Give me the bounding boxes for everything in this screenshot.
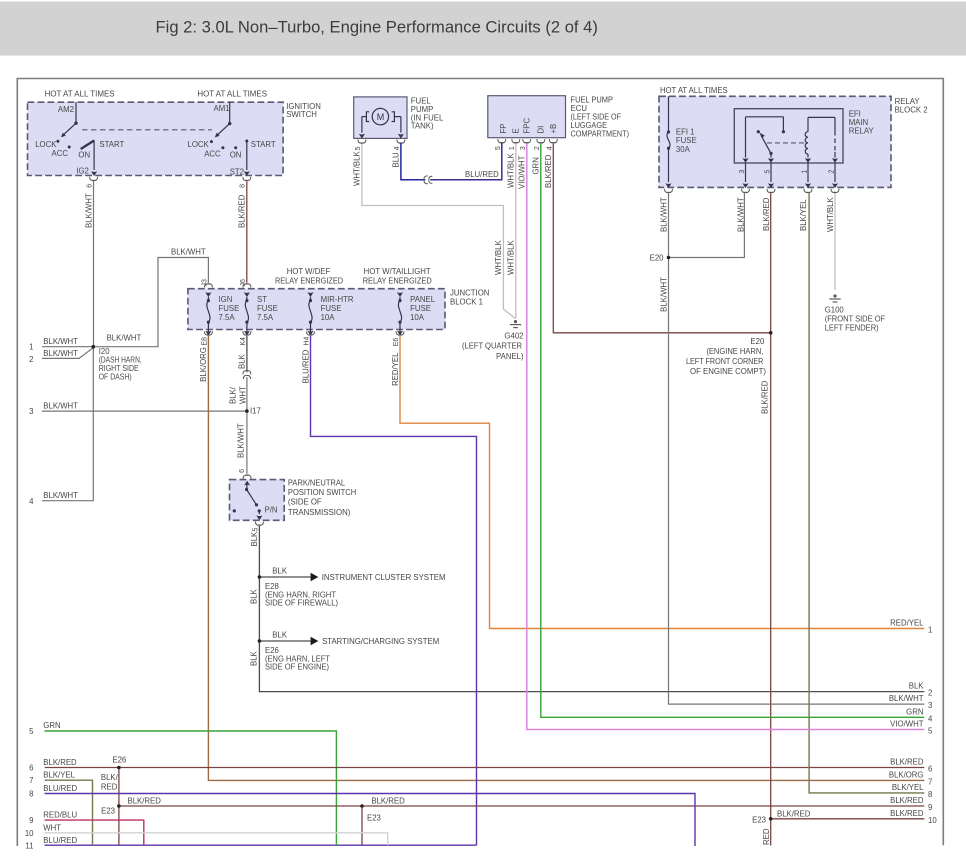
svg-text:Fig 2: 3.0L Non–Turbo, Engine: Fig 2: 3.0L Non–Turbo, Engine Performanc… <box>156 18 598 37</box>
svg-text:K4: K4 <box>240 337 247 346</box>
svg-text:LEFT FENDER): LEFT FENDER) <box>825 324 879 333</box>
svg-text:5: 5 <box>495 146 502 150</box>
P/N switch internals <box>233 481 263 521</box>
svg-text:PANEL): PANEL) <box>496 352 524 361</box>
wire BLK/WHT from IG2 down <box>93 181 95 346</box>
svg-text:BLU: BLU <box>392 152 401 168</box>
svg-text:BLK: BLK <box>250 588 259 604</box>
svg-text:IGN: IGN <box>219 295 233 304</box>
svg-text:BLK/: BLK/ <box>101 773 119 782</box>
ignition switch linkage dashed line <box>82 129 212 131</box>
svg-text:VIO/WHT: VIO/WHT <box>890 720 924 729</box>
svg-text:MIR-HTR: MIR-HTR <box>321 295 354 304</box>
relay block 2 box <box>659 96 891 187</box>
park/neutral position switch box <box>230 480 285 521</box>
ST fuse 7.5A <box>244 292 250 335</box>
svg-text:8: 8 <box>240 184 247 188</box>
svg-text:HOT W/DEF: HOT W/DEF <box>287 267 331 276</box>
svg-text:SIDE OF FIREWALL): SIDE OF FIREWALL) <box>265 599 338 608</box>
svg-text:5: 5 <box>764 170 771 174</box>
svg-text:BLU/RED: BLU/RED <box>465 170 499 179</box>
junction block 1 box <box>188 289 445 330</box>
wire BLK from K4 fuse <box>246 336 248 373</box>
svg-text:BLK/WHT: BLK/WHT <box>660 277 669 312</box>
relay linkage dashed <box>767 142 804 144</box>
svg-text:+B: +B <box>549 124 558 134</box>
svg-text:AM1: AM1 <box>214 104 230 113</box>
svg-text:I17: I17 <box>250 407 261 416</box>
svg-text:4: 4 <box>394 146 401 150</box>
svg-text:COMPARTMENT): COMPARTMENT) <box>571 130 630 139</box>
wire BLK from P/N switch to row2 right <box>259 526 924 692</box>
svg-text:6: 6 <box>928 765 932 774</box>
svg-text:30A: 30A <box>676 145 691 154</box>
wire BLK arrow line to starting/charging <box>259 640 310 642</box>
svg-text:3: 3 <box>520 146 527 150</box>
svg-text:2: 2 <box>29 355 33 364</box>
svg-text:GRN: GRN <box>906 707 923 716</box>
svg-text:7: 7 <box>29 776 33 785</box>
svg-text:5: 5 <box>355 146 362 150</box>
junction dot E28 <box>258 575 262 579</box>
svg-text:E23: E23 <box>752 815 766 824</box>
svg-text:5: 5 <box>252 528 259 532</box>
svg-text:(SIDE OF: (SIDE OF <box>288 497 322 506</box>
wire row9 BLK/RED E23 across <box>119 805 924 807</box>
connector at fuel pump pin 4 <box>397 139 405 143</box>
ignition switch box <box>28 102 284 175</box>
svg-text:OF ENGINE COMPT): OF ENGINE COMPT) <box>690 367 766 376</box>
wire VIO/WHT from ECU FPC to row5 right <box>527 144 925 730</box>
svg-text:PANEL: PANEL <box>410 295 436 304</box>
svg-text:BLK/RED: BLK/RED <box>777 809 811 818</box>
svg-text:BLK/RED: BLK/RED <box>762 197 771 231</box>
node E26 dot (row6) <box>117 766 121 770</box>
switch section AM2 <box>56 102 97 176</box>
MIR-HTR fuse 10A <box>307 292 313 335</box>
svg-text:BLK: BLK <box>272 567 288 576</box>
junction block bottom connectors <box>204 331 403 335</box>
wire BLK/RED from ECU +B to E20 <box>553 144 770 333</box>
svg-text:BLK/RED: BLK/RED <box>128 797 162 806</box>
node E23 dot (row9 second) <box>360 804 364 808</box>
relay coil <box>805 117 838 162</box>
svg-text:E23: E23 <box>367 814 381 823</box>
relay pin stubs to block edge <box>742 163 838 188</box>
svg-text:WHT/BLK: WHT/BLK <box>507 153 516 188</box>
EFI main relay inner box <box>734 109 843 163</box>
fuel pump motor symbol M <box>359 108 404 138</box>
wire WHT/BLK from fuel pump to G402 <box>362 144 515 319</box>
svg-text:START: START <box>251 140 276 149</box>
wire row5 left GRN <box>45 731 337 845</box>
wire GRN from ECU DI to row4 right <box>541 144 925 718</box>
svg-text:(LEFT QUARTER: (LEFT QUARTER <box>462 342 522 351</box>
connector J6 above junction block <box>243 284 251 288</box>
connector at ST2 pin 8 <box>243 177 251 181</box>
svg-text:SWITCH: SWITCH <box>286 110 317 119</box>
svg-text:BLK/YEL: BLK/YEL <box>799 199 808 231</box>
connector J3 above junction block <box>204 284 212 288</box>
svg-text:BLK/WHT: BLK/WHT <box>43 491 78 500</box>
svg-text:PARK/NEUTRAL: PARK/NEUTRAL <box>288 479 346 488</box>
wire BLK/WHT EFI1 to E20 and row3 right <box>669 193 925 704</box>
svg-text:RED: RED <box>762 828 771 845</box>
svg-text:LOCK: LOCK <box>188 140 210 149</box>
svg-text:1: 1 <box>29 343 33 352</box>
wire row9 left RED/BLU <box>45 820 144 845</box>
svg-text:BLK: BLK <box>272 631 288 640</box>
svg-text:J3: J3 <box>202 279 209 287</box>
wire row3 BLK/WHT to I17 <box>42 410 247 412</box>
svg-text:(FRONT SIDE OF: (FRONT SIDE OF <box>825 315 886 324</box>
svg-text:FPC: FPC <box>523 118 532 134</box>
svg-text:BLU/RED: BLU/RED <box>301 349 310 383</box>
svg-text:BLU/RED: BLU/RED <box>43 836 77 845</box>
wire WHT/BLK relay pin2 to G100 <box>834 193 836 290</box>
svg-text:BLK/RED: BLK/RED <box>890 809 924 818</box>
svg-text:DI: DI <box>536 126 545 134</box>
EFI 1 fuse 30A <box>665 96 671 188</box>
svg-text:WHT/BLK: WHT/BLK <box>353 151 362 186</box>
svg-text:E6: E6 <box>393 338 400 347</box>
svg-text:2: 2 <box>534 146 541 150</box>
svg-text:ACC: ACC <box>204 150 221 159</box>
wire row10 right BLK/RED <box>771 818 925 820</box>
svg-text:G402: G402 <box>504 331 523 340</box>
svg-text:BLOCK 2: BLOCK 2 <box>895 106 928 115</box>
svg-text:BLU/RED: BLU/RED <box>43 784 77 793</box>
wire WHT/BLK from ECU E to G402 <box>515 144 517 319</box>
svg-text:1: 1 <box>801 170 808 174</box>
svg-text:RELAY: RELAY <box>849 127 875 136</box>
svg-text:E: E <box>511 128 520 133</box>
wire BLK/ORG from E8 to row7 right <box>208 336 924 781</box>
connector at IG2 pin 6 <box>90 177 98 181</box>
wire row11 BLU/RED <box>45 844 477 846</box>
svg-text:FUSE: FUSE <box>257 304 278 313</box>
wire row10 left WHT <box>45 833 388 845</box>
wire row8 left BLU/RED <box>45 794 695 847</box>
svg-text:BLK/YEL: BLK/YEL <box>892 783 924 792</box>
svg-text:BLK/WHT: BLK/WHT <box>43 337 78 346</box>
svg-text:G100: G100 <box>825 306 845 315</box>
svg-text:J6: J6 <box>240 279 247 287</box>
svg-text:BLK/ORG: BLK/ORG <box>889 770 924 779</box>
svg-text:RED/BLU: RED/BLU <box>43 811 77 820</box>
svg-text:ACC: ACC <box>52 149 69 158</box>
junction dot E26 (engine harness) <box>258 639 262 643</box>
svg-text:P/N: P/N <box>265 506 278 515</box>
svg-text:E20: E20 <box>750 337 765 346</box>
wire BLK/RED from ST2 to J6 <box>246 181 248 282</box>
wire row2 BLK/WHT diagonal <box>42 348 93 359</box>
svg-text:BLK/ORG: BLK/ORG <box>199 347 208 382</box>
relay contact circuit <box>742 117 785 163</box>
svg-text:H4: H4 <box>304 337 311 346</box>
svg-text:BLK/WHT: BLK/WHT <box>171 248 206 257</box>
svg-text:11: 11 <box>25 841 33 850</box>
svg-text:LEFT FRONT CORNER: LEFT FRONT CORNER <box>686 357 764 366</box>
ECU pin connectors row <box>498 139 557 143</box>
PANEL fuse 10A <box>397 292 403 335</box>
wire BLU/RED to ECU FP <box>430 143 502 180</box>
wire BLK arrow line to instrument cluster <box>259 576 310 578</box>
wire row7 left BLK/YEL <box>45 780 93 845</box>
svg-text:4: 4 <box>29 497 34 506</box>
svg-text:M: M <box>377 112 385 122</box>
arrowhead instrument cluster <box>311 573 319 582</box>
wire BLK/WHT relay pin3 to E20 <box>669 193 745 257</box>
svg-text:ST2: ST2 <box>230 168 244 177</box>
title bar <box>0 2 966 56</box>
svg-text:EFI 1: EFI 1 <box>676 128 695 137</box>
svg-text:FP: FP <box>499 124 508 134</box>
svg-text:ON: ON <box>230 151 242 160</box>
connector below P/N switch pin 5 <box>255 522 263 526</box>
svg-text:9: 9 <box>928 803 932 812</box>
svg-text:RELAY ENERGIZED: RELAY ENERGIZED <box>363 276 432 285</box>
svg-text:RED/YEL: RED/YEL <box>391 352 400 386</box>
svg-text:BLK/RED: BLK/RED <box>43 758 77 767</box>
svg-text:5: 5 <box>29 727 34 736</box>
svg-text:RED/YEL: RED/YEL <box>890 619 924 628</box>
svg-text:HOT AT ALL TIMES: HOT AT ALL TIMES <box>45 90 115 99</box>
svg-text:BLK: BLK <box>250 531 259 547</box>
node E20 dot (relay) <box>667 256 671 260</box>
connector above P/N switch <box>243 475 251 479</box>
svg-text:8: 8 <box>29 790 33 799</box>
svg-text:HOT AT ALL TIMES: HOT AT ALL TIMES <box>197 90 267 99</box>
svg-text:RELAY ENERGIZED: RELAY ENERGIZED <box>275 276 343 285</box>
svg-text:RED: RED <box>101 783 118 792</box>
svg-text:6: 6 <box>87 184 94 188</box>
svg-text:AM2: AM2 <box>58 105 74 114</box>
connector at fuel pump pin 5 <box>358 139 366 143</box>
svg-text:VIO/WHT: VIO/WHT <box>518 155 527 189</box>
svg-text:BLK/RED: BLK/RED <box>760 380 769 414</box>
svg-text:JUNCTION: JUNCTION <box>450 289 489 298</box>
svg-text:E20: E20 <box>650 254 665 263</box>
svg-text:OF DASH): OF DASH) <box>99 373 132 382</box>
svg-text:(ENGINE HARN,: (ENGINE HARN, <box>706 347 763 356</box>
wire BLK/WHT connector to I17 <box>246 377 248 411</box>
ground G402 <box>510 320 521 328</box>
svg-text:3: 3 <box>29 407 33 416</box>
wire RED/YEL from E6 to row1 right <box>400 336 924 629</box>
svg-text:BLK: BLK <box>250 650 259 666</box>
fuel pump ECU box <box>488 96 566 138</box>
svg-text:BLK/RED: BLK/RED <box>890 758 924 767</box>
svg-text:STARTING/CHARGING SYSTEM: STARTING/CHARGING SYSTEM <box>322 637 439 646</box>
svg-text:LOCK: LOCK <box>35 140 57 149</box>
svg-text:9: 9 <box>29 816 33 825</box>
svg-text:ST: ST <box>257 295 267 304</box>
svg-text:TANK): TANK) <box>411 122 434 131</box>
svg-text:10: 10 <box>928 816 937 825</box>
wire I20 vertical to row4 <box>42 347 93 501</box>
svg-text:BLK/RED: BLK/RED <box>890 796 924 805</box>
svg-text:10A: 10A <box>321 313 336 322</box>
svg-text:8: 8 <box>928 790 932 799</box>
svg-text:1: 1 <box>509 146 516 150</box>
node E20 dot (engine compartment) <box>769 331 773 335</box>
svg-text:E8: E8 <box>201 337 208 346</box>
svg-text:3: 3 <box>739 170 746 174</box>
wire BLK/YEL relay pin1 to row8 right <box>809 193 924 793</box>
wire row6 BLK/RED across <box>45 767 925 769</box>
IGN fuse 7.5A <box>205 292 211 335</box>
svg-text:BLK/WHT: BLK/WHT <box>237 423 246 458</box>
svg-text:7.5A: 7.5A <box>219 313 236 322</box>
switch section AM1 <box>210 102 250 176</box>
svg-text:IG2: IG2 <box>76 166 89 175</box>
wire BLK/RED relay pin5 vertical <box>770 193 772 845</box>
svg-text:BLK/: BLK/ <box>229 386 238 404</box>
svg-text:WHT: WHT <box>43 823 61 832</box>
svg-text:GRN: GRN <box>532 157 541 174</box>
svg-text:BLK/WHT: BLK/WHT <box>43 349 78 358</box>
svg-text:7: 7 <box>928 777 932 786</box>
svg-text:BLK: BLK <box>238 353 247 369</box>
svg-text:WHT/BLK: WHT/BLK <box>507 240 516 275</box>
svg-text:BLK/RED: BLK/RED <box>371 797 405 806</box>
svg-text:SIDE OF ENGINE): SIDE OF ENGINE) <box>265 663 329 672</box>
svg-text:BLK/RED: BLK/RED <box>238 194 247 228</box>
svg-text:START: START <box>99 140 124 149</box>
svg-text:HOT W/TAILLIGHT: HOT W/TAILLIGHT <box>364 267 431 276</box>
svg-text:E23: E23 <box>101 807 115 816</box>
svg-text:4: 4 <box>546 146 553 150</box>
wire BLK/WHT from I17 to P/N switch <box>246 411 248 474</box>
svg-text:10A: 10A <box>410 313 425 322</box>
svg-text:WHT: WHT <box>238 386 247 404</box>
svg-text:5: 5 <box>928 727 933 736</box>
wire BLK/RED E26 to E23 vertical <box>118 768 120 846</box>
svg-text:E26: E26 <box>112 756 126 765</box>
node E23 dot (row9 first) <box>117 804 121 808</box>
svg-text:WHT/BLK: WHT/BLK <box>494 240 503 275</box>
node E23 dot (row10 right) <box>769 817 773 821</box>
svg-text:BLK/WHT: BLK/WHT <box>84 193 93 228</box>
svg-text:4: 4 <box>928 714 933 723</box>
svg-text:BLK/WHT: BLK/WHT <box>889 694 924 703</box>
svg-text:BLK/WHT: BLK/WHT <box>659 197 668 232</box>
svg-text:BLK/YEL: BLK/YEL <box>43 771 75 780</box>
svg-text:BLOCK 1: BLOCK 1 <box>450 298 483 307</box>
arrowhead starting/charging <box>311 637 319 646</box>
svg-text:2: 2 <box>828 170 835 174</box>
wire row1 BLK/WHT to J3 <box>42 258 208 347</box>
svg-text:GRN: GRN <box>43 721 60 730</box>
svg-text:ON: ON <box>78 151 90 160</box>
svg-text:7.5A: 7.5A <box>257 313 274 322</box>
relay block output connectors <box>665 189 839 193</box>
svg-text:6: 6 <box>29 764 33 773</box>
junction dot row1/I20 <box>92 345 96 349</box>
wire BLU/RED from H4 down to row11 <box>311 336 477 845</box>
inline connector on BLU wire <box>424 176 433 184</box>
svg-text:6: 6 <box>239 469 246 473</box>
svg-text:BLK/WHT: BLK/WHT <box>107 334 142 343</box>
svg-text:2: 2 <box>928 689 932 698</box>
svg-text:BLK/WHT: BLK/WHT <box>43 401 78 410</box>
fuel pump box <box>354 97 407 138</box>
wire BLU from fuel pump <box>401 143 425 180</box>
inline connector on K4 wire <box>243 371 251 380</box>
svg-text:FUSE: FUSE <box>676 136 697 145</box>
svg-text:BLK/RED: BLK/RED <box>544 154 553 188</box>
svg-text:BLK: BLK <box>909 682 925 691</box>
svg-text:3: 3 <box>928 701 932 710</box>
svg-text:FUSE: FUSE <box>321 304 342 313</box>
svg-text:FUSE: FUSE <box>410 304 431 313</box>
svg-text:TRANSMISSION): TRANSMISSION) <box>288 508 351 517</box>
svg-text:10: 10 <box>25 829 34 838</box>
ground G100 <box>829 294 840 302</box>
svg-text:INSTRUMENT CLUSTER SYSTEM: INSTRUMENT CLUSTER SYSTEM <box>322 573 446 582</box>
svg-text:WHT/BLK: WHT/BLK <box>826 197 835 232</box>
junction dot I17 <box>245 409 249 413</box>
svg-text:1: 1 <box>928 626 932 635</box>
svg-text:POSITION SWITCH: POSITION SWITCH <box>288 488 356 497</box>
svg-text:HOT AT ALL TIMES: HOT AT ALL TIMES <box>660 86 728 95</box>
wire BLK/RED from E23 node down <box>361 806 363 845</box>
svg-text:FUSE: FUSE <box>219 304 240 313</box>
